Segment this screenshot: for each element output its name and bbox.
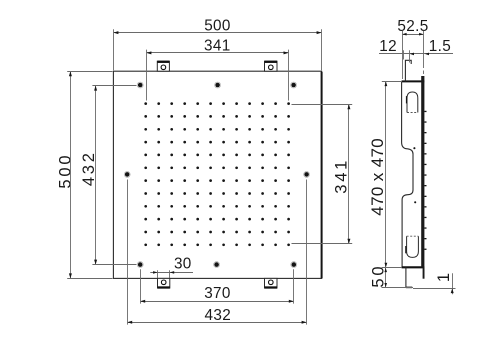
top mounting tab 2 [265, 61, 278, 71]
dim 12 and 1.5 [379, 38, 453, 62]
dim 432 bottom [127, 180, 306, 325]
plate outline (front view 500x500) [113, 71, 321, 278]
dim 1 (bottom lip) [413, 273, 456, 294]
dim 30 (tab width) [150, 256, 193, 278]
svg-text:500: 500 [56, 153, 74, 189]
svg-text:432: 432 [205, 307, 232, 324]
large mounting holes (8) [124, 82, 309, 268]
face plate lower extension [423, 267, 425, 278]
dim 500 top [113, 18, 321, 71]
lower slot (side view) [405, 236, 418, 257]
top mounting tab 1 [157, 61, 169, 71]
dim 432 left vertical [80, 86, 136, 265]
dim 370 bottom [140, 269, 294, 303]
dim 500 left vertical [56, 71, 112, 278]
top tab (side view) [405, 60, 411, 81]
bottom mounting tab 2 [265, 278, 278, 288]
screw dots (side view) [413, 147, 416, 203]
dim 341 right vertical [292, 104, 353, 244]
bottom foot (side view) [406, 267, 412, 287]
dim 50 [369, 264, 413, 288]
svg-text:12: 12 [379, 38, 397, 55]
svg-text:1: 1 [435, 273, 453, 282]
nozzle ticks (side view) [424, 111, 426, 250]
upper slot (side view) [406, 92, 418, 113]
svg-text:341: 341 [333, 158, 351, 194]
svg-text:470 x 470: 470 x 470 [368, 138, 387, 216]
svg-text:370: 370 [204, 285, 231, 302]
svg-text:30: 30 [174, 256, 192, 273]
nozzle hole grid 12x12 [144, 102, 290, 246]
dim 52.5 [397, 18, 428, 79]
side view body outline [402, 81, 425, 267]
face plate (1.5 section, thick) [421, 76, 424, 268]
svg-text:341: 341 [204, 37, 231, 54]
dim 470 x 470 [368, 82, 401, 268]
bottom mounting tab 1 [158, 278, 170, 288]
dim 341 top [146, 37, 288, 100]
svg-text:1.5: 1.5 [429, 38, 451, 55]
